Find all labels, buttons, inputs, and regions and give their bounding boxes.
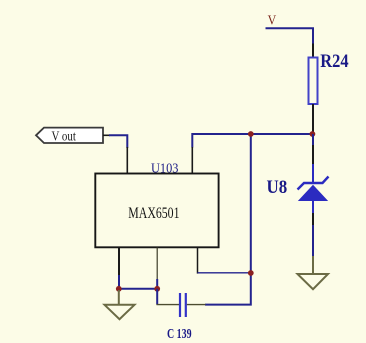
wire into zener bar bbox=[312, 164, 314, 184]
ground symbol right bbox=[298, 274, 329, 289]
junction dot pin C tee bbox=[248, 270, 254, 276]
resistor R24 bottom lead bbox=[312, 104, 314, 133]
wire between bottom dots bbox=[119, 288, 157, 290]
capacitor C139 left plate bbox=[179, 293, 181, 317]
svg-text:MAX6501: MAX6501 bbox=[128, 205, 179, 222]
zener U8 triangle bbox=[299, 186, 327, 201]
U103 top-left pin bbox=[126, 147, 128, 174]
wire junction row y=134 bbox=[192, 134, 314, 148]
wire zener top bbox=[312, 134, 314, 146]
U103 top-right pin bbox=[191, 147, 193, 174]
wire zener to ground bbox=[312, 225, 314, 257]
junction dot left bottom bbox=[116, 286, 122, 292]
capacitor C139 left lead bbox=[157, 304, 180, 306]
wire cap branch vertical bbox=[156, 289, 158, 305]
zener U8 cathode bar bbox=[298, 177, 329, 190]
U103 bottom pin B bbox=[156, 247, 158, 280]
U103 bottom pin A bbox=[118, 247, 120, 276]
junction dot at R24 / zener tee bbox=[310, 131, 316, 137]
junction dot at right branch tee bbox=[248, 131, 254, 137]
wire right vertical branch bbox=[205, 134, 251, 305]
wire pin A to junction bbox=[118, 275, 120, 289]
Vout flag stub lead bbox=[103, 134, 110, 136]
zener U8 top pin bbox=[312, 145, 314, 166]
resistor R24 top lead bbox=[312, 44, 314, 59]
svg-text:U103: U103 bbox=[151, 161, 179, 176]
svg-text:C 139: C 139 bbox=[167, 327, 192, 342]
wire pin B to junction bbox=[156, 279, 158, 289]
wire pin C to right branch bbox=[198, 272, 252, 274]
ground stem left bbox=[118, 290, 120, 305]
wire Vout to U103 pin bbox=[109, 135, 127, 148]
capacitor C139 right lead bbox=[187, 304, 206, 306]
junction dot mid bottom bbox=[154, 286, 160, 292]
svg-text:U8: U8 bbox=[267, 177, 288, 198]
svg-text:R24: R24 bbox=[320, 52, 348, 72]
wire below zener triangle bbox=[312, 201, 314, 215]
op-amp box U103 MAX6501 bbox=[95, 174, 218, 248]
U103 bottom pin C bbox=[197, 247, 199, 273]
ground stem right bbox=[312, 256, 314, 274]
Vout signal flag bbox=[36, 128, 103, 143]
resistor R24 body bbox=[309, 58, 318, 105]
svg-text:V: V bbox=[268, 13, 277, 28]
ground symbol left bbox=[105, 305, 135, 319]
capacitor C139 right plate bbox=[185, 293, 187, 317]
wire V supply to R24 top bbox=[266, 28, 314, 44]
zener U8 bottom pin bbox=[312, 213, 314, 226]
svg-text:V out: V out bbox=[52, 130, 76, 145]
